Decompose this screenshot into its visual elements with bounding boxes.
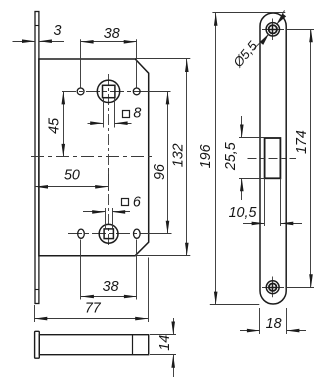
top screw outer circle [266,23,279,36]
bottom screw hole right [134,229,141,238]
vertical center line through hubs [108,74,110,247]
latch hole rectangle [265,138,281,178]
svg-text:10,5: 10,5 [229,205,257,221]
dimension 174 [286,29,314,31]
dimension 25,5 [239,137,265,139]
extension line to 96 dim bottom [148,233,172,235]
svg-text:18: 18 [266,316,282,332]
dimension 132 [135,58,190,60]
top screw hole left [77,88,84,95]
dimension 18 [259,308,261,334]
middle horizontal center line [31,156,153,158]
svg-text:132: 132 [170,143,186,167]
dimension 10,5 [264,179,266,227]
svg-text:174: 174 [294,130,310,154]
bottom screw inner circle [269,283,277,291]
svg-text:50: 50 [64,168,80,184]
lock body outline [39,59,149,256]
svg-text:8: 8 [133,105,141,121]
dimension 3 (strip thickness) [13,41,36,43]
svg-text:25,5: 25,5 [223,142,239,171]
bottom screw hole left [78,229,85,238]
dimension 77 [34,305,36,322]
svg-text:3: 3 [54,23,62,39]
top hub circle [97,80,119,102]
diameter 5,5 leader [254,34,269,48]
square symbol for 6 [122,199,129,206]
dimension 45 [63,91,65,156]
extension line to 96 dim top [148,91,171,93]
svg-text:14: 14 [157,335,173,351]
top screw cross [269,29,276,31]
svg-text:45: 45 [46,118,62,134]
dimension 196 [212,12,285,14]
side view body bar [39,335,148,355]
top hub square 8mm [103,85,115,97]
horizontal center line top hub row [62,91,148,93]
bottom screw center ticks [262,287,284,289]
dimension 6 (square hole) [105,208,107,229]
dimension 38 bottom [80,240,82,300]
dimension 50 [108,168,110,191]
faceplate front view (stadium) [260,13,286,304]
strip bottom cap line [35,289,39,291]
horizontal center line bottom hub row [68,233,148,235]
side view inner line [132,335,134,355]
svg-text:6: 6 [133,195,141,211]
svg-text:96: 96 [152,164,168,180]
top screw hole right [133,88,140,95]
svg-text:196: 196 [198,144,214,168]
bottom hub circle [99,224,118,243]
bottom hub square 6mm [104,229,113,239]
dimension 14 [150,334,176,336]
side view faceplate cap [35,331,40,358]
latch center dashed line [248,158,297,160]
svg-text:38: 38 [104,26,120,42]
square symbol for 8 [123,111,130,118]
svg-text:38: 38 [103,279,119,295]
bottom screw outer circle [266,281,279,294]
top screw center ticks [262,29,284,31]
dimension 96 [167,91,169,233]
faceplate edge-on strip [35,12,39,304]
bottom screw cross [270,287,276,289]
dimension 8 (square hole) [103,98,105,128]
dimension 38 top [80,39,82,87]
svg-text:77: 77 [85,301,102,317]
top screw inner circle [269,25,277,33]
strip top cap line [35,25,39,27]
